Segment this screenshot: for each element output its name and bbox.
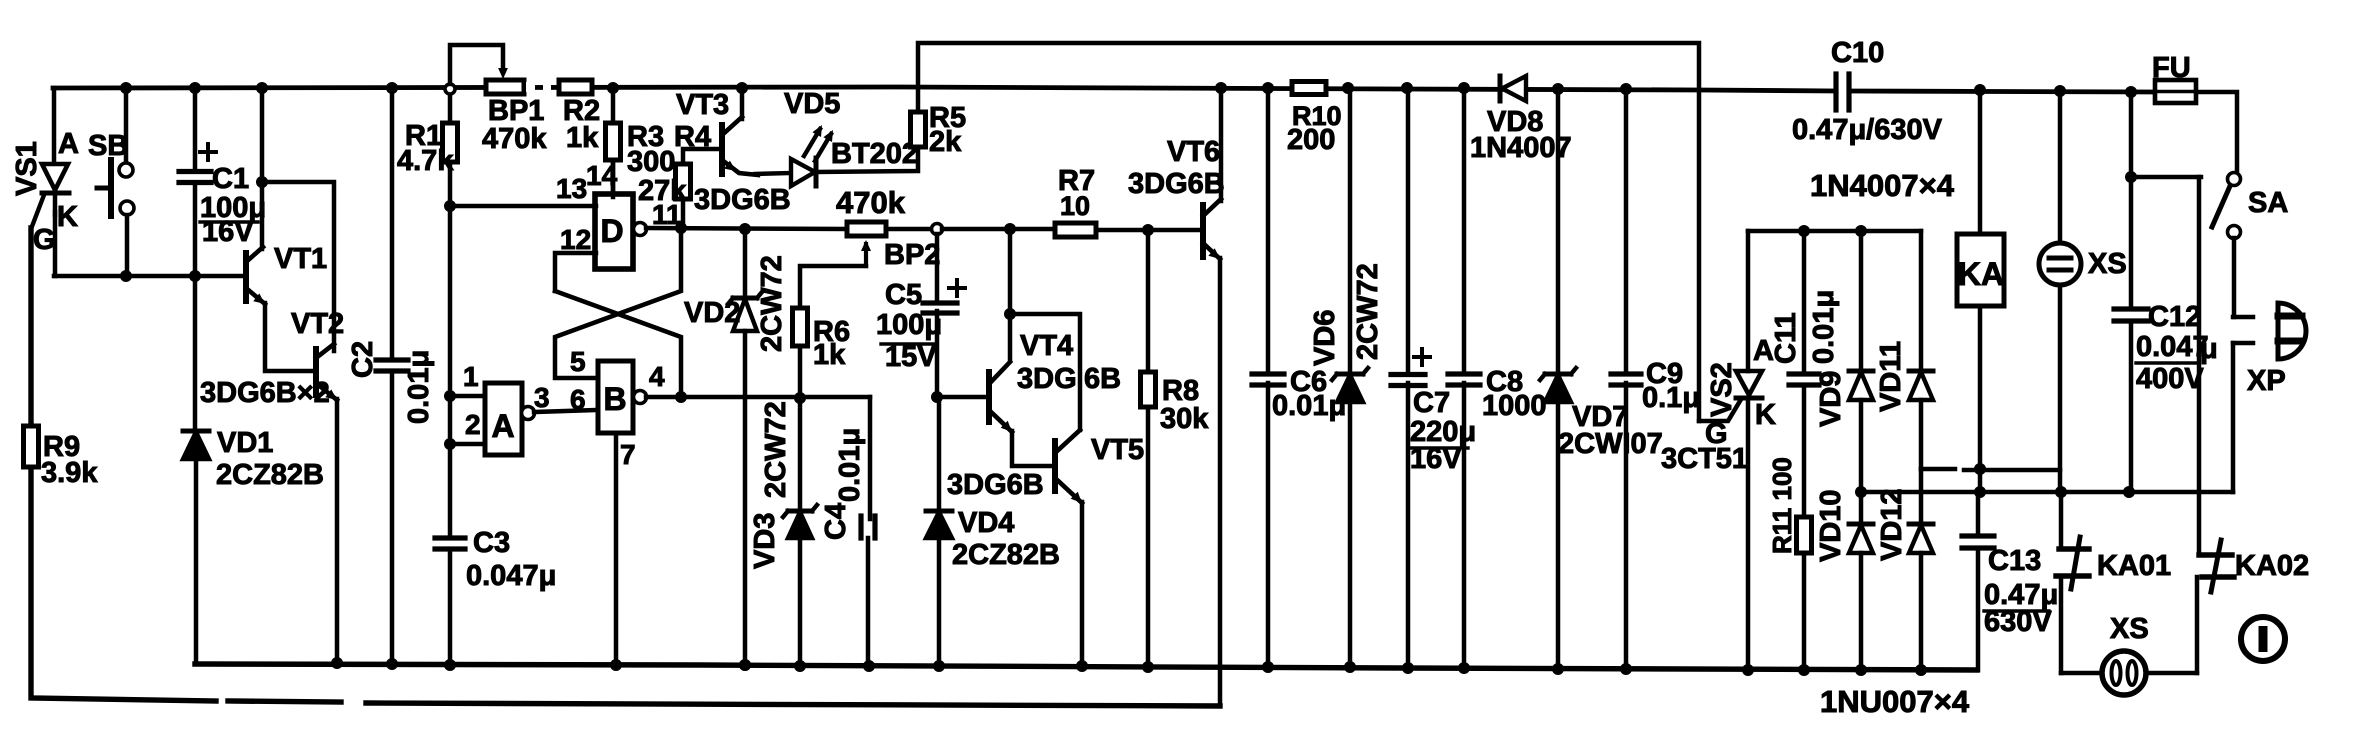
svg-text:R4: R4 <box>674 121 711 153</box>
label 1 <box>463 361 479 392</box>
label 0.047u (C3) <box>466 560 556 592</box>
junction dot: C12 bottom on line B <box>2123 486 2135 498</box>
label VD10 (rotated) <box>1815 489 1847 562</box>
transistor VT4 <box>989 362 1012 432</box>
label R5 <box>929 102 966 134</box>
capacitor C2 <box>376 88 408 664</box>
junction dot: R11 at rail <box>1798 664 1810 676</box>
label XS (top) <box>2088 248 2127 280</box>
wire: bridge DC node line B <box>1861 490 2233 495</box>
junction dot: C11 top <box>1798 225 1810 237</box>
wire: C5 column <box>935 234 940 397</box>
pin 12 wire <box>555 253 596 291</box>
label R11 100 (rotated) <box>1767 457 1797 554</box>
label 3DG (VT4) <box>1017 363 1077 395</box>
svg-text:2CZ82B: 2CZ82B <box>952 539 1060 571</box>
svg-text:VT5: VT5 <box>1091 434 1144 466</box>
svg-text:16V: 16V <box>1410 443 1462 475</box>
wire: VS2 cathode to rail <box>1746 398 1751 670</box>
label G (VS2) <box>1705 418 1728 450</box>
svg-text:C2: C2 <box>347 341 379 378</box>
transistor VT2 <box>316 344 337 400</box>
label 470k (BP2) <box>836 185 906 220</box>
label 7 <box>620 439 636 470</box>
svg-text:16V: 16V <box>202 216 254 248</box>
svg-text:G: G <box>33 224 56 256</box>
svg-text:A: A <box>491 408 514 444</box>
zener diode VD6 <box>1332 88 1368 667</box>
wire: D output line (pin 11) <box>646 228 847 229</box>
wire: VD4 to rail <box>937 538 942 666</box>
label VD12 (rotated) <box>1876 488 1908 561</box>
label 100u (C5) <box>876 309 942 344</box>
label 3CT51 <box>1661 443 1748 475</box>
junction dot: R8 at rail <box>1142 661 1154 673</box>
svg-text:C11: C11 <box>1770 312 1802 364</box>
capacitor C9 <box>1611 89 1641 669</box>
junction dot: R1 column at rail <box>444 659 456 671</box>
pin 13 wire <box>450 204 596 209</box>
svg-text:3: 3 <box>534 382 550 413</box>
svg-text:C10: C10 <box>1831 37 1884 69</box>
junction dot: VD3 at rail <box>794 660 806 672</box>
svg-text:VT6: VT6 <box>1167 136 1220 168</box>
resistor R6 <box>793 308 808 346</box>
label 2 <box>465 409 481 440</box>
svg-text:7: 7 <box>620 439 636 470</box>
svg-text:2CW72: 2CW72 <box>756 255 788 352</box>
svg-text:VS1: VS1 <box>11 141 43 196</box>
wire: C12 to KA02 jog line <box>2131 175 2201 180</box>
label BP1 <box>488 95 544 127</box>
diode VD11 <box>1909 231 1933 469</box>
svg-text:400V: 400V <box>2136 363 2204 395</box>
label 30k (R8) <box>1160 403 1209 435</box>
svg-text:VD2: VD2 <box>684 297 740 329</box>
svg-text:2CW72: 2CW72 <box>760 401 792 498</box>
label 2CZ82B (VD4) <box>952 539 1060 571</box>
label VT3 <box>676 89 729 121</box>
label C3 <box>473 527 510 559</box>
wire: C5/VD4 column to rail <box>937 397 942 509</box>
wire: VS2 anode to bridge top <box>1746 231 1751 371</box>
svg-text:27k: 27k <box>638 175 687 207</box>
svg-text:VT2: VT2 <box>291 308 344 340</box>
svg-text:0.01μ: 0.01μ <box>403 350 435 424</box>
label 0.1u (C9) <box>1642 382 1700 414</box>
svg-text:3DG6B: 3DG6B <box>694 184 791 216</box>
thyristor VS1 <box>31 164 69 229</box>
svg-text:6B: 6B <box>1084 363 1121 395</box>
capacitor C10 (series in top bus) <box>1836 74 1849 110</box>
label 5 <box>570 346 586 377</box>
svg-text:2k: 2k <box>929 126 962 158</box>
svg-text:3DG6B: 3DG6B <box>1128 168 1225 200</box>
transistor VT5 <box>1055 430 1082 503</box>
wire: C4 drop from pin4 line <box>868 397 873 519</box>
label 0.01u (C6) <box>1272 390 1346 422</box>
cross-coupling wires (D-B latch) <box>555 228 681 397</box>
label C12 <box>2148 301 2201 333</box>
svg-text:C4: C4 <box>820 503 852 540</box>
label VD6 (rotated) <box>1309 310 1341 366</box>
label 1N4007 (VD8) <box>1470 132 1572 164</box>
svg-text:1k: 1k <box>566 122 599 154</box>
junction dot: VT4 base node <box>931 391 943 403</box>
label 0.47u (C13) <box>1984 579 2058 611</box>
svg-text:1: 1 <box>463 361 479 392</box>
capacitor C11 <box>1789 231 1819 385</box>
diode VD12 <box>1909 469 1933 670</box>
wire: main top supply bus <box>53 87 2155 92</box>
junction dot: VT2 emitter at rail <box>331 657 343 669</box>
label 16V (C1) <box>202 216 254 248</box>
junction dots: C12 top <box>2125 86 2137 183</box>
wire: VT1 emitter to VT2 base <box>265 303 316 371</box>
label BT202 <box>831 138 918 170</box>
svg-text:12: 12 <box>560 224 591 255</box>
label 3.9k <box>41 457 98 489</box>
wire: VD2 column <box>743 229 748 296</box>
resistor R11 <box>1797 385 1812 670</box>
resistor R10 <box>1292 82 1326 95</box>
transistor VT1 <box>246 247 265 304</box>
junction dots: ground rail left group <box>739 659 751 671</box>
wire: BP2 wiper to R6 <box>800 266 866 308</box>
label R4 <box>674 121 711 153</box>
pin 7 wire <box>614 433 619 665</box>
wire: top trigger line (R5 top to VS2 gate column) <box>918 43 1699 421</box>
relay coil KA <box>1957 88 2004 492</box>
junction dot: VT1 collector node <box>256 82 268 188</box>
label 3DG6B (VT6) <box>1128 168 1225 200</box>
resistor R7 <box>1055 223 1096 237</box>
label A (VS2) <box>1753 335 1774 367</box>
capacitor C7 <box>1391 88 1430 668</box>
label R3 <box>627 121 664 153</box>
svg-text:VT1: VT1 <box>274 243 327 275</box>
svg-text:100μ: 100μ <box>876 309 942 341</box>
label VD9 (rotated) <box>1815 371 1847 427</box>
junction dot: VT5 emitter at rail <box>1076 660 1088 672</box>
label 6 <box>570 384 586 415</box>
label VT2 <box>291 308 344 340</box>
label 14 <box>586 160 618 191</box>
wire: LED cathode to R5 <box>816 147 918 172</box>
label 13 <box>556 173 587 204</box>
diode VD1 <box>183 431 209 664</box>
junction dot: VD4 at rail <box>933 660 945 672</box>
wire: top bus fuse-to-SA segment <box>2196 92 2237 173</box>
label 10 (R7) <box>1060 191 1090 221</box>
svg-text:3CT51: 3CT51 <box>1661 443 1748 475</box>
svg-text:K: K <box>57 201 78 233</box>
svg-text:C7: C7 <box>1413 387 1450 419</box>
label C2 (rotated) <box>347 341 379 378</box>
nand gate D <box>595 194 647 269</box>
relay contact KA01 <box>2056 492 2089 673</box>
label VT1 <box>274 243 327 275</box>
label A (VS1 anode) <box>58 128 79 160</box>
svg-text:1NU007×4: 1NU007×4 <box>1820 684 1970 719</box>
potentiometer BP2 <box>847 222 886 266</box>
label 16V (C7) <box>1410 443 1462 475</box>
junction dot: collector link <box>1004 308 1016 320</box>
wire: VT5 emitter to rail <box>1080 502 1085 666</box>
label 12 <box>560 224 591 255</box>
label VD8 <box>1487 106 1543 138</box>
junction dots: XS column <box>2054 85 2067 498</box>
svg-text:VD6: VD6 <box>1309 310 1341 366</box>
label 4 <box>649 361 665 392</box>
svg-text:300: 300 <box>627 146 675 178</box>
capacitor C13 <box>1962 492 1994 670</box>
label C10 <box>1831 37 1884 69</box>
svg-text:VS2: VS2 <box>1706 362 1738 417</box>
label R10 <box>1292 101 1342 131</box>
label G (VS1 gate) <box>33 224 56 256</box>
diode VD4 <box>926 511 952 538</box>
label C9 <box>1646 358 1683 390</box>
diode VD9 <box>1849 231 1873 492</box>
wire: VT1 collector to bus <box>260 88 265 249</box>
svg-text:10: 10 <box>1060 191 1090 221</box>
svg-text:KA01: KA01 <box>2097 550 2171 582</box>
label C5 <box>885 279 922 311</box>
junction dot: pin 7 at rail <box>610 659 622 671</box>
junction dots: VD7 <box>1552 83 1564 675</box>
svg-text:5: 5 <box>570 346 586 377</box>
label 0.01u C11 (rotated) <box>1808 290 1840 364</box>
wire: VS2 gate lead <box>1699 401 1740 421</box>
wire: C4 to rail <box>866 538 871 666</box>
label VT5 <box>1091 434 1144 466</box>
nand gate A <box>485 383 535 455</box>
wire: VT4 emitter to VT5 base <box>1012 431 1055 466</box>
label VD11 (rotated) <box>1875 341 1907 412</box>
label VD1 <box>217 427 273 459</box>
socket XS (bottom) <box>2061 651 2197 695</box>
label VT6 <box>1167 136 1220 168</box>
wire: bridge top line <box>1748 229 1921 234</box>
label VT4 <box>1020 330 1073 362</box>
label C7 <box>1413 387 1450 419</box>
label 1N4007x4 <box>1810 168 1955 203</box>
svg-text:6: 6 <box>570 384 586 415</box>
junction dots: pins 1,2 <box>444 390 456 450</box>
wire: lowest return rail (left part) <box>31 228 341 702</box>
svg-text:0.47μ/630V: 0.47μ/630V <box>1792 114 1943 146</box>
svg-text:C5: C5 <box>885 279 922 311</box>
label 400V (C12) <box>2136 363 2204 395</box>
wire: lowest return rail (right part) <box>366 703 1220 706</box>
svg-text:4: 4 <box>649 361 665 392</box>
label R7 <box>1058 165 1095 197</box>
resistor R3 <box>606 88 621 197</box>
svg-text:VT3: VT3 <box>676 89 729 121</box>
label VD7 <box>1572 401 1628 433</box>
svg-text:K: K <box>1755 399 1776 431</box>
label KA02 <box>2235 550 2309 582</box>
junction dot: VS2 at rail <box>1742 664 1754 676</box>
node: BP1 wiper circle on bus <box>445 84 455 94</box>
resistor R5 <box>911 112 926 147</box>
plug XP <box>2233 303 2306 492</box>
wire: VS1 cathode down to base line <box>53 212 58 276</box>
capacitor C1 <box>179 88 216 430</box>
svg-text:2CZ82B: 2CZ82B <box>216 459 324 491</box>
svg-text:470k: 470k <box>836 185 906 220</box>
label 0.01u C4 (rotated) <box>834 428 866 502</box>
label 3DG6B (VT5) <box>947 469 1044 501</box>
switch SA <box>2212 173 2241 318</box>
label 2CW72 (VD6, rotated) <box>1352 263 1384 360</box>
resistor R8 <box>1141 230 1156 667</box>
svg-text:R11 100: R11 100 <box>1767 457 1797 554</box>
wire: LED anode line <box>755 173 791 174</box>
label 2CW72 (VD3, rotated) <box>760 401 792 498</box>
svg-text:0.1μ: 0.1μ <box>1642 382 1700 414</box>
label 27k (R4) <box>638 175 687 207</box>
wire: VT6 emitter to lowest rail <box>1218 258 1223 706</box>
capacitor C12 <box>2114 92 2148 492</box>
svg-text:470k: 470k <box>482 123 547 155</box>
label VD2 <box>684 297 740 329</box>
junction dots: C7 <box>1402 662 1414 674</box>
label C6 <box>1290 366 1327 398</box>
label VD3 (rotated) <box>749 513 781 569</box>
label XP <box>2247 365 2286 397</box>
svg-text:15V: 15V <box>885 341 937 373</box>
junction dot: C1 top on bus <box>189 82 201 94</box>
label 300 (R3) <box>627 146 675 178</box>
label 470k (BP1) <box>482 123 547 155</box>
label 11 <box>652 199 682 230</box>
label 630V (C13) <box>1984 606 2052 638</box>
wire: B output line (pin 4) <box>646 395 870 400</box>
label XS (bottom) <box>2110 613 2149 645</box>
diode VD8 <box>1500 76 1526 101</box>
label 0.47u/630V (C10) <box>1792 114 1943 146</box>
wire: VT1 base line <box>54 274 246 279</box>
junction dots: C8 <box>1458 82 1470 674</box>
resistor R9 <box>24 426 39 467</box>
label 3 <box>534 382 550 413</box>
label R6 <box>813 316 850 348</box>
label 0.01u C2 (rotated) <box>403 350 435 424</box>
svg-text:C3: C3 <box>473 527 510 559</box>
svg-text:SB: SB <box>88 130 128 162</box>
svg-text:B: B <box>603 381 626 417</box>
label VS1 <box>11 141 43 196</box>
svg-text:KA02: KA02 <box>2235 550 2309 582</box>
wire: VT2 emitter to ground rail <box>335 399 340 663</box>
wire: VT4 collector branch down <box>1008 229 1013 360</box>
svg-text:VD11: VD11 <box>1875 341 1907 412</box>
junction dot: R10 right <box>1342 82 1354 94</box>
label VS2 (rotated) <box>1706 362 1738 417</box>
svg-text:2CW72: 2CW72 <box>1352 263 1384 360</box>
socket XS (top) <box>2039 91 2081 492</box>
thyristor VS2 <box>1736 371 1762 398</box>
junction dot: R8 top <box>1142 224 1154 236</box>
label 200 (R10) <box>1287 124 1335 156</box>
potentiometer BP1 <box>450 45 524 94</box>
wire: VT4 base from C5 node <box>937 395 989 400</box>
svg-text:630V: 630V <box>1984 606 2052 638</box>
svg-text:0.01μ: 0.01μ <box>834 428 866 502</box>
junction dot: R3 top <box>607 82 619 94</box>
label 2k (R5) <box>929 126 962 158</box>
label R9 <box>43 431 80 463</box>
svg-text:μ: μ <box>2200 333 2218 365</box>
label BP2 <box>884 239 940 271</box>
label C11 (rotated) <box>1770 312 1802 364</box>
label KA01 <box>2097 550 2171 582</box>
junction dot: VT3 collector <box>736 82 748 94</box>
wire: VD3 to rail <box>798 538 803 666</box>
svg-text:D: D <box>600 213 623 249</box>
svg-text:XS: XS <box>2088 248 2127 280</box>
svg-text:VD4: VD4 <box>958 507 1014 539</box>
junction dots: KA column <box>1974 84 1986 498</box>
wire: VT6 collector to bus <box>1219 88 1224 201</box>
zener diode VD3 <box>783 505 817 538</box>
svg-text:1000: 1000 <box>1482 390 1547 422</box>
label 1NU007x4 <box>1820 684 1970 719</box>
wire: R6 to VD3 <box>798 346 803 509</box>
svg-text:FU: FU <box>2152 52 2191 84</box>
label 1k (R6) <box>813 339 846 371</box>
wire: R7 line from BP2 node <box>942 227 1055 232</box>
label R8 <box>1162 375 1199 407</box>
pin 2 wire <box>450 442 485 447</box>
wire: BP2 to node circle <box>886 227 931 232</box>
label SA <box>2248 187 2288 219</box>
label 3DG6Bx2 <box>200 377 330 409</box>
junction dot: VD2 at rail <box>739 659 751 671</box>
junction dots: C9 <box>1620 83 1632 675</box>
svg-text:VD5: VD5 <box>784 88 840 120</box>
junction dot: pin 13 tee <box>444 200 456 212</box>
pin 1 wire <box>450 394 485 399</box>
svg-text:3DG: 3DG <box>1017 363 1077 395</box>
node A: VS1 anode column from bus <box>52 88 57 165</box>
svg-text:2CWI07: 2CWI07 <box>1558 428 1663 460</box>
label 220u (C7) <box>1410 416 1476 448</box>
label C1 <box>212 163 249 195</box>
junction dots: C4/rail <box>863 660 875 672</box>
svg-text:XS: XS <box>2110 613 2149 645</box>
junction dot: VT6 collector <box>1215 82 1227 94</box>
relay contact KA02 <box>2197 540 2234 673</box>
capacitor C5 <box>923 280 965 313</box>
capacitor C8 <box>1448 88 1480 668</box>
switch SB <box>97 88 134 276</box>
wire: A output to B pin 6 <box>534 410 598 412</box>
label R2 <box>563 95 600 127</box>
svg-text:VD10: VD10 <box>1815 489 1847 562</box>
svg-text:VD9: VD9 <box>1815 371 1847 427</box>
svg-text:30k: 30k <box>1160 403 1209 435</box>
junction dots: bridge left mid <box>1855 486 1867 676</box>
junction dot: C6 at rail <box>1262 661 1274 673</box>
junction dots: C2 column <box>386 82 398 670</box>
junction dot: VD9 top <box>1855 225 1867 237</box>
capacitor C6 <box>1252 88 1284 667</box>
svg-text:C13: C13 <box>1988 545 2041 577</box>
svg-text:C1: C1 <box>212 163 249 195</box>
